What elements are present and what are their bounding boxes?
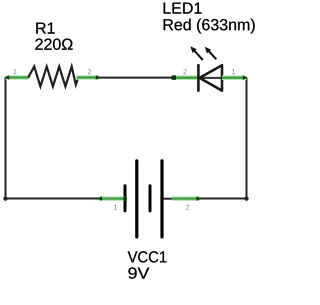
battery VCC1 plate tall 1: [135, 161, 138, 237]
battery VCC1 pin label 2: [186, 205, 189, 210]
wire bottom right: [200, 198, 247, 200]
battery VCC1 leg pin 1: [97, 196, 127, 201]
label VCC1: [128, 251, 167, 262]
LED1 leg pin 2 anode: [172, 75, 198, 79]
LED1 emission arrow 1: [190, 46, 203, 60]
junction dot bottom-left corner: [3, 196, 7, 200]
LED1 pin label 2: [183, 69, 186, 74]
battery VCC1 plate short 2: [149, 186, 152, 211]
battery VCC1 plate short 1: [124, 186, 127, 211]
LED1 emission arrow 2: [205, 47, 217, 60]
label R1: [36, 23, 54, 34]
wire top middle: [99, 77, 173, 79]
resistor R1 leg pin 1: [4, 75, 28, 80]
resistor R1 pin label 1: [13, 69, 16, 74]
LED1 cathode bar: [197, 65, 200, 90]
wire bottom left: [4, 198, 98, 200]
battery VCC1 leg pin 2: [172, 196, 202, 201]
LED1 pin label 1: [232, 69, 235, 74]
LED1 triangle: [200, 65, 223, 90]
LED1 internal lead: [199, 77, 222, 79]
junction dot bottom-right corner: [244, 196, 248, 200]
resistor R1 zigzag: [28, 67, 78, 87]
label LED1: [164, 3, 202, 14]
value Red 633nm: [164, 19, 255, 34]
LED1 leg pin 1 cathode: [222, 75, 248, 80]
resistor R1 leg pin 2: [77, 75, 101, 80]
value 220 ohm: [35, 39, 72, 50]
resistor R1 pin label 2: [88, 69, 91, 74]
battery VCC1 pin label 1: [114, 205, 117, 210]
wire right vertical: [246, 78, 248, 200]
battery VCC1 plate tall 2: [160, 161, 163, 237]
wire left vertical: [5, 78, 7, 199]
battery VCC1 stub pin 2: [163, 198, 172, 200]
value 9V: [128, 267, 149, 278]
